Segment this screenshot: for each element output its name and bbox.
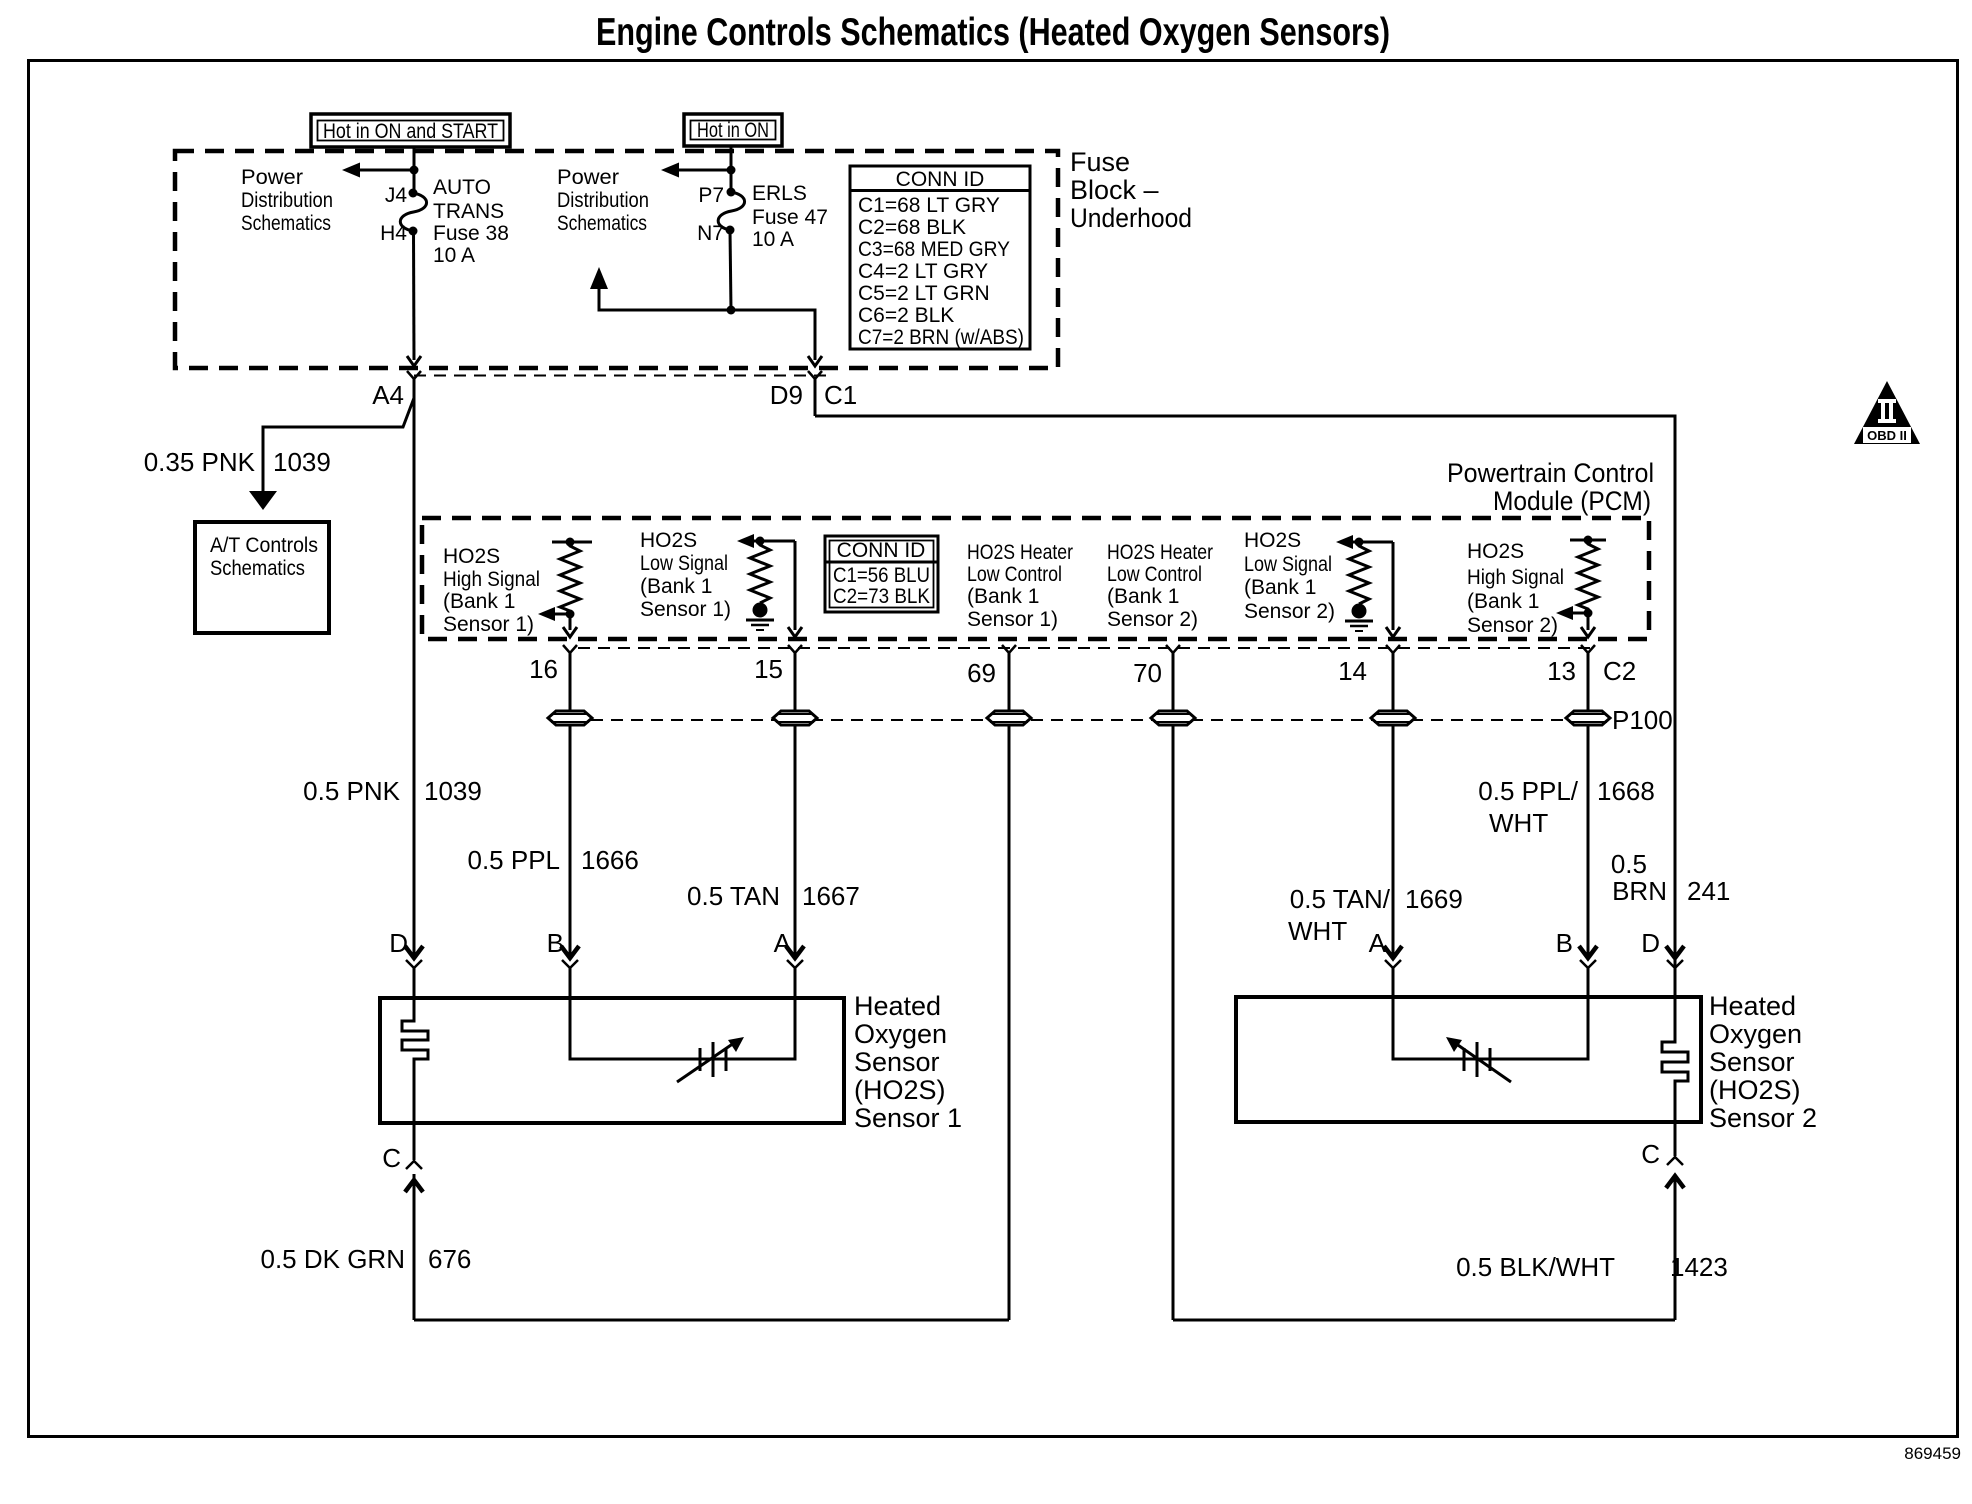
svg-text:Sensor 1): Sensor 1) xyxy=(443,613,534,636)
resistor R-16 (HO2S high signal bank1 sensor1) xyxy=(552,538,592,619)
svg-text:J4: J4 xyxy=(385,184,408,207)
svg-text:Oxygen: Oxygen xyxy=(1709,1019,1802,1049)
svg-text:AUTO: AUTO xyxy=(433,176,491,199)
svg-text:Sensor 1): Sensor 1) xyxy=(640,598,731,621)
terminal B (sensor 2) xyxy=(1579,946,1597,997)
connector pin 13 (Y symbol) xyxy=(1581,645,1595,670)
resistor R-13 (HO2S high signal bank1 sensor2) xyxy=(1570,536,1606,618)
svg-text:C: C xyxy=(1641,1139,1660,1169)
wire pin 14 down to sensor 2 A xyxy=(1392,670,1395,957)
svg-text:Underhood: Underhood xyxy=(1070,203,1192,233)
heater element (sensor 1) xyxy=(402,998,428,1123)
box: A/T Controls Schematics xyxy=(195,522,329,633)
svg-text:Schematics: Schematics xyxy=(241,212,331,235)
svg-text:Sensor: Sensor xyxy=(854,1047,940,1077)
terminal D (sensor 2) xyxy=(1666,946,1684,997)
svg-text:ERLS: ERLS xyxy=(752,182,807,205)
svg-text:0.5 PNK: 0.5 PNK xyxy=(303,776,400,806)
wire from Hot in ON and START down to fuse J4 xyxy=(413,147,416,193)
svg-text:C7=2 BRN (w/ABS): C7=2 BRN (w/ABS) xyxy=(858,326,1024,349)
inline connector P100 on pin14 wire xyxy=(1371,711,1415,725)
svg-text:0.5 TAN: 0.5 TAN xyxy=(687,881,780,911)
inline connector P100 on pin69 wire xyxy=(987,711,1031,725)
thin dashed connector line A4-D9 xyxy=(414,375,830,377)
svg-text:HO2S: HO2S xyxy=(640,529,697,552)
svg-text:C1: C1 xyxy=(824,380,857,410)
wire from fuse H4 down to A4 xyxy=(412,231,416,360)
svg-text:1667: 1667 xyxy=(802,881,860,911)
box: Heated Oxygen Sensor (HO2S) Sensor 2 xyxy=(1236,997,1701,1122)
wire pin13 inside PCM with arrowhead xyxy=(1581,613,1595,637)
svg-text:High Signal: High Signal xyxy=(443,568,540,591)
resistor R-15 (HO2S low signal bank1 sensor1) xyxy=(750,537,770,604)
svg-text:(Bank 1: (Bank 1 xyxy=(1244,576,1316,599)
arrow wire to Power Distribution Schematics (left) xyxy=(352,169,414,172)
svg-text:Fuse 47: Fuse 47 xyxy=(752,206,828,229)
terminal A (sensor 1) xyxy=(786,946,804,998)
svg-text:0.5 BLK/WHT: 0.5 BLK/WHT xyxy=(1456,1252,1615,1282)
svg-text:Sensor 1): Sensor 1) xyxy=(967,608,1058,631)
heater element (sensor 2) xyxy=(1662,997,1688,1122)
svg-text:HO2S: HO2S xyxy=(443,545,500,568)
node: junction at left feed xyxy=(410,166,419,175)
svg-text:HO2S Heater: HO2S Heater xyxy=(1107,541,1213,564)
thin dashed connector line P100 xyxy=(551,719,1607,721)
wire branch left with up arrow xyxy=(599,282,731,310)
svg-text:(Bank 1: (Bank 1 xyxy=(640,575,712,598)
terminal B (sensor 1) xyxy=(561,946,579,998)
svg-text:TRANS: TRANS xyxy=(433,200,504,223)
arrowhead at A4 xyxy=(407,356,421,366)
svg-text:A/T Controls: A/T Controls xyxy=(210,534,318,557)
svg-text:P7: P7 xyxy=(698,184,724,207)
wire pin 70 down to bottom xyxy=(1172,670,1175,1320)
svg-text:(Bank 1: (Bank 1 xyxy=(967,585,1039,608)
box: Heated Oxygen Sensor (HO2S) Sensor 1 xyxy=(380,998,844,1123)
svg-text:1668: 1668 xyxy=(1597,776,1655,806)
svg-text:15: 15 xyxy=(754,654,783,684)
svg-text:1039: 1039 xyxy=(273,447,331,477)
fuse F47 ERLS element (P7/N7) xyxy=(727,188,736,197)
svg-text:Powertrain Control: Powertrain Control xyxy=(1447,458,1654,488)
svg-text:BRN: BRN xyxy=(1612,876,1667,906)
wire pin14 inside PCM with arrowhead xyxy=(1386,542,1400,637)
svg-text:1669: 1669 xyxy=(1405,884,1463,914)
svg-text:WHT: WHT xyxy=(1489,808,1548,838)
svg-text:(Bank 1: (Bank 1 xyxy=(1107,585,1179,608)
svg-text:C3=68 MED GRY: C3=68 MED GRY xyxy=(858,238,1010,261)
inline connector P100 on pin13 wire xyxy=(1566,711,1610,725)
svg-text:241: 241 xyxy=(1687,876,1730,906)
wire branch right down to D9 xyxy=(731,310,815,360)
svg-text:Sensor 2): Sensor 2) xyxy=(1467,614,1558,637)
svg-text:Hot in ON and START: Hot in ON and START xyxy=(323,120,498,143)
svg-text:C1=56 BLU: C1=56 BLU xyxy=(833,564,930,587)
svg-text:C2=68 BLK: C2=68 BLK xyxy=(858,216,966,239)
svg-text:(Bank 1: (Bank 1 xyxy=(443,590,515,613)
svg-text:Sensor 2: Sensor 2 xyxy=(1709,1103,1817,1133)
svg-text:Oxygen: Oxygen xyxy=(854,1019,947,1049)
svg-text:869459: 869459 xyxy=(1904,1444,1961,1463)
wire A4 main column down to sensor 1 xyxy=(413,396,416,957)
node: junction dot at y=310 xyxy=(727,306,736,315)
svg-text:Power: Power xyxy=(241,166,303,189)
sensor 1 internal wires B-A xyxy=(570,998,795,1059)
svg-text:Low Signal: Low Signal xyxy=(640,552,728,575)
svg-text:Heated: Heated xyxy=(1709,991,1796,1021)
svg-text:CONN ID: CONN ID xyxy=(837,539,926,562)
svg-text:0.5 DK GRN: 0.5 DK GRN xyxy=(261,1244,406,1274)
arrow left at R-15 top xyxy=(737,534,795,548)
svg-text:1666: 1666 xyxy=(581,845,639,875)
svg-text:D: D xyxy=(1641,928,1660,958)
wire pin16 inside PCM with arrowhead xyxy=(563,614,577,637)
wire pin 15 down to sensor 1 A xyxy=(794,670,797,957)
fuse block dashed box xyxy=(175,151,1058,368)
svg-text:Schematics: Schematics xyxy=(557,212,647,235)
wire pin 16 down to sensor 1 B xyxy=(569,670,572,957)
terminal C (sensor 2) xyxy=(1666,1122,1684,1320)
label box: Hot in ON and START xyxy=(311,114,510,147)
svg-text:Schematics: Schematics xyxy=(210,557,305,580)
svg-text:Sensor 1: Sensor 1 xyxy=(854,1103,962,1133)
terminal D (sensor 1) xyxy=(405,946,423,998)
wire from Hot in ON down to fuse P7 xyxy=(730,146,733,192)
svg-text:C2: C2 xyxy=(1603,656,1636,686)
svg-text:C5=2 LT GRN: C5=2 LT GRN xyxy=(858,282,990,305)
svg-text:10 A: 10 A xyxy=(752,228,794,251)
PCM dashed box xyxy=(422,518,1649,639)
svg-text:14: 14 xyxy=(1338,656,1367,686)
svg-text:13: 13 xyxy=(1547,656,1576,686)
svg-text:Fuse 38: Fuse 38 xyxy=(433,222,509,245)
svg-text:C6=2 BLK: C6=2 BLK xyxy=(858,304,954,327)
svg-text:0.5 PPL: 0.5 PPL xyxy=(467,845,560,875)
svg-text:A: A xyxy=(774,928,792,958)
wire sensor2 C to pin 70 (bottom run) xyxy=(1173,1319,1675,1322)
svg-text:69: 69 xyxy=(967,658,996,688)
svg-text:Low Control: Low Control xyxy=(1107,563,1202,586)
svg-text:1423: 1423 xyxy=(1670,1252,1728,1282)
svg-text:Heated: Heated xyxy=(854,991,941,1021)
svg-text:High Signal: High Signal xyxy=(1467,566,1564,589)
svg-text:Distribution: Distribution xyxy=(557,189,649,212)
svg-text:(HO2S): (HO2S) xyxy=(854,1075,946,1105)
wire pin 69 down to bottom xyxy=(1008,670,1011,1320)
svg-text:(HO2S): (HO2S) xyxy=(1709,1075,1801,1105)
wire pin 13 down to sensor 2 B xyxy=(1587,670,1590,957)
svg-text:P100: P100 xyxy=(1612,705,1673,735)
variable sense element (sensor 1) xyxy=(677,1037,744,1082)
terminal C (sensor 1) xyxy=(405,1123,423,1320)
node: junction at right feed xyxy=(727,166,736,175)
svg-text:Fuse: Fuse xyxy=(1070,147,1130,177)
svg-text:C4=2 LT GRY: C4=2 LT GRY xyxy=(858,260,988,283)
sensor 2 internal wires A-B xyxy=(1393,997,1588,1059)
svg-text:10 A: 10 A xyxy=(433,244,475,267)
svg-text:676: 676 xyxy=(428,1244,471,1274)
svg-text:CONN ID: CONN ID xyxy=(896,168,985,191)
connector pin 15 (Y symbol) xyxy=(788,645,802,670)
svg-text:Low Signal: Low Signal xyxy=(1244,553,1332,576)
svg-text:B: B xyxy=(547,928,564,958)
svg-text:0.5 TAN/: 0.5 TAN/ xyxy=(1290,884,1391,914)
CONN ID table (PCM) xyxy=(825,536,938,612)
connector A4 (Y symbol) xyxy=(407,371,421,396)
svg-text:C1=68 LT GRY: C1=68 LT GRY xyxy=(858,194,1000,217)
svg-text:Engine Controls Schematics (He: Engine Controls Schematics (Heated Oxyge… xyxy=(596,11,1390,54)
arrow left at R-14 top xyxy=(1336,535,1393,549)
fuse F38 AUTO TRANS element (J4/H4) xyxy=(409,189,418,198)
ground at R-15 xyxy=(746,603,774,631)
terminal A (sensor 2) xyxy=(1384,946,1402,997)
inline connector P100 on pin15 wire xyxy=(773,711,817,725)
svg-text:1039: 1039 xyxy=(424,776,482,806)
svg-text:Module (PCM): Module (PCM) xyxy=(1493,486,1651,516)
svg-text:Hot in ON: Hot in ON xyxy=(697,119,769,142)
connector pin 70 (Y symbol) xyxy=(1166,645,1180,670)
svg-text:Power: Power xyxy=(557,166,619,189)
connector pin 69 (Y symbol) xyxy=(1002,645,1016,670)
svg-text:WHT: WHT xyxy=(1288,916,1347,946)
OBD II symbol xyxy=(1854,381,1920,444)
svg-text:C2=73 BLK: C2=73 BLK xyxy=(833,585,930,608)
arrow left at R-13 bottom xyxy=(1556,606,1588,620)
svg-text:Sensor 2): Sensor 2) xyxy=(1107,608,1198,631)
svg-text:Sensor 2): Sensor 2) xyxy=(1244,600,1335,623)
svg-text:Low Control: Low Control xyxy=(967,563,1062,586)
svg-text:HO2S Heater: HO2S Heater xyxy=(967,541,1073,564)
wire branch A4 to A/T controls xyxy=(263,398,414,492)
connector pin 16 (Y symbol) xyxy=(563,645,577,670)
svg-text:Distribution: Distribution xyxy=(241,189,333,212)
svg-text:HO2S: HO2S xyxy=(1467,540,1524,563)
svg-text:16: 16 xyxy=(529,654,558,684)
svg-text:B: B xyxy=(1556,928,1573,958)
svg-text:D: D xyxy=(389,928,408,958)
svg-text:(Bank 1: (Bank 1 xyxy=(1467,590,1539,613)
CONN ID table (fuse block) xyxy=(850,166,1030,349)
arrow left at R-16 bottom xyxy=(538,607,570,621)
variable sense element (sensor 2) xyxy=(1446,1037,1511,1082)
svg-text:0.5 PPL/: 0.5 PPL/ xyxy=(1478,776,1579,806)
thin dashed connector line C2 xyxy=(578,647,1597,649)
arrow wire to Power Distribution Schematics (right) xyxy=(671,169,731,172)
ground at R-14 xyxy=(1345,604,1373,632)
svg-text:70: 70 xyxy=(1133,658,1162,688)
svg-text:0.35 PNK: 0.35 PNK xyxy=(144,447,256,477)
svg-text:N7: N7 xyxy=(697,222,724,245)
svg-text:HO2S: HO2S xyxy=(1244,529,1301,552)
svg-text:A: A xyxy=(1369,928,1387,958)
arrowhead at D9 xyxy=(808,356,822,366)
wire sensor1 C to pin 69 (bottom run) xyxy=(414,1319,1009,1322)
svg-text:H4: H4 xyxy=(380,222,407,245)
label box: Hot in ON xyxy=(684,114,782,146)
svg-text:C: C xyxy=(382,1143,401,1173)
wire pin15 inside PCM with arrowhead xyxy=(788,541,802,637)
inline connector P100 on pin70 wire xyxy=(1151,711,1195,725)
resistor R-14 (HO2S low signal bank1 sensor2) xyxy=(1349,538,1369,605)
inline connector P100 on pin16 wire xyxy=(548,711,592,725)
connector D9/C1 (Y symbol) xyxy=(808,371,822,416)
svg-text:0.5: 0.5 xyxy=(1611,849,1647,879)
svg-text:A4: A4 xyxy=(372,380,404,410)
svg-text:D9: D9 xyxy=(770,380,803,410)
wire C1 horizontal to sensor 2 column xyxy=(815,416,1675,996)
wire from fuse N7 down to junction xyxy=(730,230,731,310)
connector pin 14 (Y symbol) xyxy=(1386,645,1400,670)
svg-text:OBD II: OBD II xyxy=(1867,428,1907,443)
svg-text:Sensor: Sensor xyxy=(1709,1047,1795,1077)
svg-text:Block –: Block – xyxy=(1070,175,1159,205)
